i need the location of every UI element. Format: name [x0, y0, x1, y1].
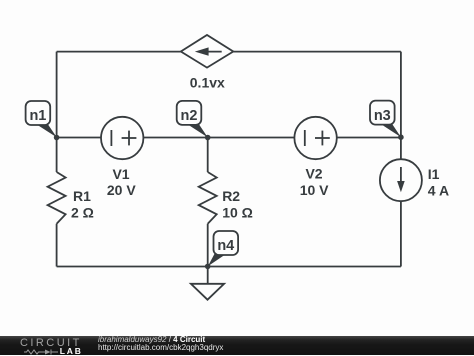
- svg-text:R2: R2: [222, 188, 240, 204]
- svg-text:n1: n1: [29, 108, 46, 124]
- svg-text:n3: n3: [374, 108, 391, 124]
- svg-text:20 V: 20 V: [107, 182, 136, 198]
- svg-text:0.1vx: 0.1vx: [190, 75, 225, 91]
- svg-text:V2: V2: [305, 166, 322, 182]
- svg-text:4 A: 4 A: [428, 182, 449, 198]
- svg-text:R1: R1: [73, 188, 91, 204]
- svg-text:10 Ω: 10 Ω: [222, 204, 253, 220]
- svg-text:I1: I1: [428, 166, 440, 182]
- svg-text:10 V: 10 V: [300, 182, 329, 198]
- svg-text:n2: n2: [181, 108, 198, 124]
- svg-text:2 Ω: 2 Ω: [71, 204, 94, 220]
- svg-text:V1: V1: [112, 166, 129, 182]
- svg-text:n4: n4: [217, 238, 234, 254]
